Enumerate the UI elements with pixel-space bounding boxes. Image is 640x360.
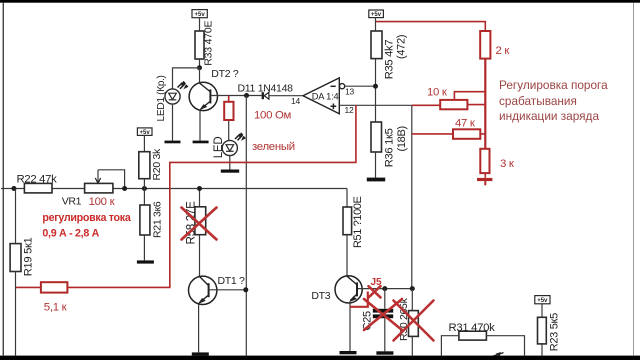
svg-text:индикации заряда: индикации заряда (499, 109, 599, 123)
resistor R20 3k (139, 148, 163, 181)
resistor 3 к (red) (480, 149, 489, 173)
node C (pin13 / R35 / R36) (373, 84, 378, 89)
red wire 10к right lead (467, 104, 485, 106)
svg-text:D11 1N4148: D11 1N4148 (238, 82, 294, 94)
resistor R51 ?100E (343, 196, 364, 248)
wire R19 to bottom (15, 272, 17, 356)
wire DT3 emitter to ground (349, 303, 351, 351)
wire R21 to ground (143, 235, 145, 260)
svg-text:R58 27E: R58 27E (184, 201, 197, 245)
wire R58 branch (node to resistor) (199, 189, 201, 207)
svg-text:R19 5к1: R19 5к1 (23, 237, 35, 276)
svg-text:R36 1к5: R36 1к5 (384, 128, 396, 167)
svg-text:R22 47k: R22 47k (17, 174, 58, 186)
svg-text:3 к: 3 к (500, 158, 515, 170)
red wire 47к left lead (412, 133, 453, 135)
wire LED to ground (229, 156, 231, 170)
LED LED1 (Кр.) (156, 75, 189, 121)
wire R30 to bottom (411, 336, 413, 355)
ground DT2 (193, 141, 209, 144)
node I (C25 junction) (382, 286, 387, 291)
wire V3 to R20 (143, 135, 145, 151)
wire main to R51 (corner) (346, 189, 348, 208)
wire DT1 emitter to ground (198, 304, 200, 352)
resistor 10 к (red) (440, 100, 467, 109)
resistor R36 1к5 (18В) (371, 122, 408, 167)
svg-text:(472): (472) (396, 35, 408, 59)
wire node I to C25 (384, 289, 386, 309)
wire LED1 to ground (172, 104, 174, 140)
wire node A to LED1 branch (173, 68, 200, 89)
pin 12 wire (339, 104, 412, 106)
svg-text:+5v: +5v (140, 130, 151, 136)
svg-text:срабатывания: срабатывания (499, 94, 577, 108)
wire DT3 base to nodes (358, 288, 412, 290)
ground R21 (137, 260, 154, 263)
arrow symbol at bottom (partially hidden) (491, 353, 504, 357)
wire R51 to DT3 collector (346, 235, 348, 276)
svg-text:13: 13 (345, 87, 355, 97)
svg-text:5,1 к: 5,1 к (44, 302, 68, 314)
wire main to R19 (15, 189, 17, 244)
resistor R35 4k7 (472) (371, 31, 408, 79)
ground LED1 (165, 141, 181, 144)
pin 13 wire (345, 85, 376, 87)
red highlighted trace pin12 to 5,1к (170, 105, 356, 287)
wire R35 to R36 (375, 59, 377, 122)
resistor 47 к (red) (453, 129, 480, 139)
op-amp DA1:4 (303, 78, 345, 114)
power +5V supply V1 (top left) (192, 10, 207, 18)
resistor R33 470E (195, 21, 215, 66)
svg-text:R23 5к5: R23 5к5 (549, 313, 561, 351)
svg-text:+5v: +5v (537, 298, 548, 304)
wire R23 to bottom (541, 344, 543, 356)
svg-text:зеленый: зеленый (252, 141, 295, 153)
svg-text:DA 1:4: DA 1:4 (312, 92, 339, 102)
wire main horizontal net y188.5 (1, 188, 347, 190)
potentiometer VR1 100к (62, 170, 125, 208)
svg-text:LED1 (Кр.): LED1 (Кр.) (156, 75, 167, 121)
wire V1 to R33 (199, 18, 201, 31)
ground 3к (red) (477, 178, 492, 181)
red rail right (484, 59, 486, 149)
svg-text:VR1: VR1 (62, 196, 82, 208)
diode D11 1N4148 (238, 82, 294, 99)
svg-text:DT2 ?: DT2 ? (211, 68, 239, 80)
wire R33 to node A (199, 59, 201, 68)
svg-text:+5v: +5v (371, 12, 382, 18)
resistor R19 5к1 (10, 237, 34, 276)
node J (R30 junction) (410, 286, 415, 291)
wire DT2 emitter to ground (199, 110, 201, 140)
resistor 100 Ом (red) (224, 102, 233, 120)
node A (R33/LED1/DT2 collector) (197, 65, 202, 70)
node H (DT1 base / long vertical) (243, 287, 248, 292)
svg-text:2 к: 2 к (496, 45, 511, 57)
svg-text:R20 3k: R20 3k (151, 148, 163, 181)
wire V2 to R35 (375, 18, 377, 31)
svg-text:10 к: 10 к (427, 87, 448, 99)
svg-text:Регулировка порога: Регулировка порога (499, 78, 608, 92)
resistor R30 265k (crossed out) (398, 297, 418, 341)
red X over C25 (364, 299, 402, 330)
ground DT1 (192, 352, 209, 355)
svg-text:47 к: 47 к (455, 118, 476, 130)
svg-text:100 Ом: 100 Ом (254, 110, 292, 122)
jumper J5 red cross (369, 286, 381, 297)
node E (VR1 wiper junction) (122, 186, 127, 191)
resistor R58 27E (crossed out) (184, 201, 205, 245)
resistor 5,1 к (red) (41, 282, 68, 292)
red bracket J5 (base to emitter) (350, 292, 368, 307)
wire pin12 node down to DT3 (vertical x411.8) (411, 105, 413, 288)
power +5V supply V3 (above R20) (137, 128, 152, 136)
wire main to R21 (143, 189, 145, 206)
LED зеленый (213, 132, 246, 158)
red wire 47к right lead (480, 133, 485, 135)
frame borders (0, 0, 640, 3)
svg-text:регулировка тока: регулировка тока (42, 212, 131, 224)
red wire +5V to 2к (376, 22, 485, 31)
resistor R31 470k (449, 322, 496, 340)
ground DT3 (340, 351, 357, 354)
power +5V supply V4 (above R23) (535, 296, 550, 304)
red wire 10к left lead (412, 104, 440, 106)
red X over R58 (182, 208, 217, 240)
transistor DT3 (311, 276, 362, 303)
svg-text:100 к: 100 к (89, 196, 116, 208)
svg-text:R35 4k7: R35 4k7 (384, 40, 396, 80)
red wire 5,1к to corner (67, 286, 170, 288)
wire R31 left lead (441, 336, 459, 356)
svg-text:+5v: +5v (195, 12, 206, 18)
wire V4 to R23 (541, 304, 543, 318)
resistor 2 к (red) (480, 31, 490, 59)
svg-text:R33 470E: R33 470E (203, 21, 215, 66)
transistor DT1 (189, 275, 246, 305)
svg-text:DT3: DT3 (311, 290, 330, 302)
ground LED зеленый (221, 170, 239, 173)
resistor R22 47k (17, 174, 58, 193)
wire node J to R30 (411, 289, 413, 311)
wire R58 to DT1 collector (199, 235, 201, 277)
svg-text:14: 14 (291, 96, 301, 106)
svg-text:R21 3к6: R21 3к6 (152, 201, 164, 238)
wire R36 to ground (375, 152, 377, 178)
svg-text:DT1 ?: DT1 ? (218, 275, 246, 287)
LED зеленый branch: red stub from base wire (228, 96, 230, 102)
svg-text:R51 ?100E: R51 ?100E (352, 196, 364, 248)
wire D11 to op-amp pin 14 (269, 95, 304, 97)
svg-text:LED: LED (213, 137, 225, 159)
ground R36 (367, 178, 385, 182)
wire R31 right lead (486, 336, 524, 356)
resistor R21 3к6 (140, 201, 164, 238)
wire C25 to ground (384, 318, 386, 351)
transistor DT2 (189, 68, 239, 111)
red wire R19 node to 5,1к (16, 286, 41, 288)
node B (base DT2 / D11 / LED branch) (244, 93, 249, 98)
wire 100 Ом to LED (228, 121, 230, 141)
wire DT2 base to node B (211, 95, 261, 97)
wire R20 to main wire (143, 179, 145, 189)
power +5V supply V2 (above R35) (369, 10, 384, 18)
red X over R30 (394, 301, 434, 341)
svg-text:(18В): (18В) (396, 126, 408, 151)
resistor R23 5к5 (538, 313, 561, 351)
svg-text:R31 470k: R31 470k (449, 322, 496, 334)
ground C25 (376, 351, 393, 354)
red wire 10к wiper loop (454, 92, 485, 100)
node F (R20/R21 junction) (142, 186, 147, 191)
wire DT1 base to node H (210, 289, 246, 291)
capacitor C25 (crossed out) (362, 309, 394, 331)
svg-text:J5: J5 (371, 277, 383, 288)
red wire 3к to ground (484, 173, 486, 178)
node G (main wire / R58) (197, 186, 202, 191)
svg-text:12: 12 (345, 105, 355, 115)
wire node B down to DT1 base (long vertical) (245, 96, 247, 356)
node D (R19/R22 junction) (11, 186, 16, 191)
svg-text:0,9 А - 2,8 А: 0,9 А - 2,8 А (42, 227, 99, 239)
